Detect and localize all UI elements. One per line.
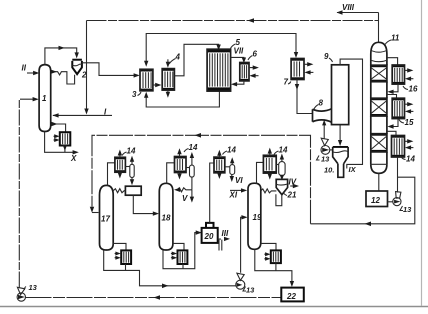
svg-text:V: V bbox=[182, 194, 188, 203]
svg-text:19: 19 bbox=[253, 213, 262, 222]
svg-text:2: 2 bbox=[81, 71, 87, 80]
svg-text:7: 7 bbox=[284, 78, 289, 87]
svg-text:VI: VI bbox=[235, 176, 243, 185]
svg-text:21: 21 bbox=[287, 191, 297, 200]
svg-text:14: 14 bbox=[406, 155, 415, 164]
svg-text:13: 13 bbox=[29, 283, 38, 292]
svg-text:10.: 10. bbox=[324, 166, 334, 175]
svg-text:13: 13 bbox=[321, 155, 330, 164]
svg-text:VII: VII bbox=[234, 47, 245, 56]
svg-text:1: 1 bbox=[42, 94, 47, 103]
svg-text:22: 22 bbox=[286, 292, 296, 301]
svg-text:14: 14 bbox=[279, 146, 288, 155]
svg-text:16: 16 bbox=[409, 85, 418, 94]
svg-text:12: 12 bbox=[371, 196, 380, 205]
svg-text:13: 13 bbox=[403, 205, 412, 214]
svg-text:3: 3 bbox=[132, 90, 137, 99]
svg-text:14: 14 bbox=[189, 143, 198, 152]
svg-text:XI: XI bbox=[229, 191, 238, 200]
svg-text:20: 20 bbox=[204, 232, 214, 241]
svg-text:11: 11 bbox=[391, 34, 400, 43]
svg-text:17: 17 bbox=[101, 215, 110, 224]
svg-text:4: 4 bbox=[175, 53, 181, 62]
svg-text:IX: IX bbox=[349, 165, 357, 174]
svg-text:X: X bbox=[70, 154, 77, 163]
svg-text:14: 14 bbox=[127, 147, 136, 156]
svg-text:9: 9 bbox=[324, 52, 329, 61]
svg-text:II: II bbox=[22, 64, 27, 73]
svg-text:15: 15 bbox=[405, 118, 414, 127]
svg-text:8: 8 bbox=[319, 99, 324, 108]
svg-text:VIII: VIII bbox=[342, 3, 355, 12]
svg-text:6: 6 bbox=[253, 50, 258, 59]
svg-text:18: 18 bbox=[162, 214, 171, 223]
svg-text:III: III bbox=[222, 229, 229, 238]
svg-text:14: 14 bbox=[227, 146, 236, 155]
svg-text:13: 13 bbox=[246, 286, 255, 295]
